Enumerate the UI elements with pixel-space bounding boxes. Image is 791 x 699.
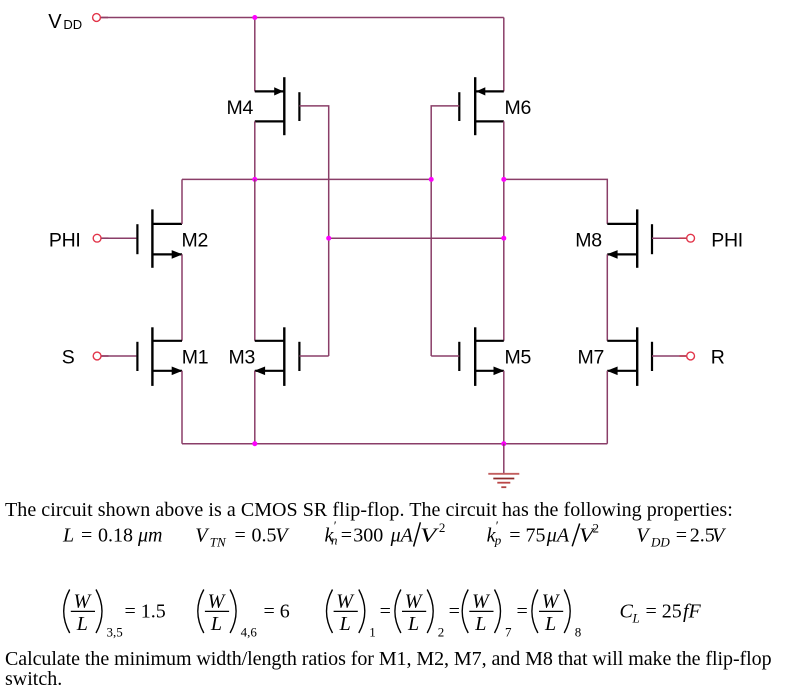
wire ground stem — [503, 444, 505, 474]
svg-text:W: W — [336, 590, 355, 612]
text value CL — [620, 601, 702, 626]
wire M1 source to ground bus — [181, 371, 183, 444]
junction cross link at node B — [501, 236, 506, 241]
svg-text:′: ′ — [495, 518, 498, 533]
wire M8 source to M7 drain — [606, 254, 608, 340]
svg-text:=: = — [235, 525, 246, 547]
svg-text:L: L — [407, 613, 419, 635]
terminal PHI right — [680, 234, 695, 242]
terminal PHI left — [93, 234, 108, 242]
svg-text:W: W — [405, 590, 424, 612]
wire node A down to M3 drain — [254, 179, 256, 340]
svg-text:M1: M1 — [182, 347, 209, 369]
svg-text:L: L — [339, 613, 351, 635]
wire node B cross link — [329, 237, 504, 239]
svg-text:0.18: 0.18 — [98, 525, 133, 547]
svg-text:1: 1 — [369, 624, 376, 639]
svg-text:The circuit shown above is a C: The circuit shown above is a CMOS SR fli… — [5, 499, 733, 521]
svg-text:M6: M6 — [505, 97, 532, 119]
transistor M7 — [607, 327, 652, 386]
svg-text:= 6: = 6 — [264, 601, 290, 623]
svg-text:=: = — [517, 601, 528, 623]
wire M7 source to ground bus — [606, 371, 608, 444]
svg-text:= 25: = 25 — [646, 601, 682, 623]
svg-text:L: L — [632, 611, 640, 626]
svg-text:3,5: 3,5 — [107, 624, 123, 639]
junction cross link at M4 M3 gates — [326, 236, 331, 241]
svg-text:S: S — [62, 347, 75, 369]
svg-text:=: = — [380, 601, 391, 623]
svg-text:W: W — [208, 590, 227, 612]
svg-text:switch.: switch. — [5, 668, 62, 690]
svg-text:M2: M2 — [182, 229, 209, 251]
wire node A bus — [182, 178, 431, 180]
svg-text:0.5: 0.5 — [252, 525, 277, 547]
text ratio W/L 7 — [462, 590, 528, 640]
svg-text:PHI: PHI — [711, 229, 743, 251]
terminal VDD — [93, 14, 108, 22]
wire M3 gate stub — [299, 355, 328, 357]
svg-text:=: = — [341, 525, 352, 547]
text ratio W/L 2 — [395, 590, 460, 640]
svg-text:L: L — [76, 613, 88, 635]
svg-text:μA: μA — [546, 525, 570, 547]
svg-text:=: = — [509, 525, 520, 547]
svg-text:n: n — [331, 533, 338, 548]
svg-text:W: W — [74, 590, 93, 612]
junction node A at M6 gate — [429, 177, 434, 182]
svg-text:= 1.5: = 1.5 — [125, 601, 166, 623]
transistor M4 — [255, 77, 300, 135]
svg-text:PHI: PHI — [49, 229, 81, 251]
svg-text:DD: DD — [650, 535, 670, 550]
junction node B at M6 drain — [501, 177, 506, 182]
wire M3 source to ground bus — [254, 371, 256, 444]
text ratio W/L 4,6 — [198, 590, 290, 640]
svg-text:L: L — [474, 613, 486, 635]
wire M4 drain down — [254, 121, 256, 179]
text ratio W/L 3,5 — [64, 590, 166, 640]
junction ground bus at M5 source — [501, 441, 506, 446]
svg-text:M8: M8 — [575, 229, 602, 251]
svg-text:L: L — [62, 525, 74, 547]
wire VDD rail — [101, 17, 504, 19]
svg-text:Calculate the minimum width/le: Calculate the minimum width/length ratio… — [5, 648, 772, 670]
svg-text:L: L — [544, 613, 556, 635]
wire M2 source to M1 drain — [181, 254, 183, 340]
junction ground bus at M3 source — [252, 441, 257, 446]
terminal S — [93, 352, 108, 360]
svg-text:=: = — [676, 525, 687, 547]
label VDD — [48, 11, 82, 33]
svg-text:2: 2 — [439, 520, 446, 535]
wire ground bus — [182, 443, 607, 445]
svg-text:W: W — [542, 590, 561, 612]
wire S to M1 gate — [101, 355, 136, 357]
wire M8 gate to PHI right — [652, 237, 686, 239]
svg-text:W: W — [472, 590, 491, 612]
transistor M5 — [459, 327, 504, 386]
wire M5 gate stub — [431, 355, 459, 357]
svg-text:7: 7 — [505, 624, 512, 639]
wire node B bus to M8 drain — [504, 179, 608, 224]
svg-text:=: = — [449, 601, 460, 623]
svg-text:L: L — [210, 613, 222, 635]
svg-text:=: = — [81, 525, 92, 547]
svg-text:2: 2 — [593, 521, 600, 536]
svg-text:p: p — [494, 533, 502, 548]
transistor M3 — [254, 327, 299, 386]
junction VDD rail — [252, 15, 257, 20]
text ratio W/L 8 — [532, 590, 581, 640]
wire VDD to M4 source — [254, 18, 256, 92]
svg-text:2: 2 — [438, 624, 445, 639]
svg-text:R: R — [711, 347, 725, 369]
terminal R — [680, 352, 695, 360]
svg-text:4,6: 4,6 — [241, 624, 258, 639]
wire M4 gate to node B — [299, 106, 328, 356]
transistor M2 — [137, 209, 182, 267]
text properties equations — [62, 518, 727, 550]
svg-text:V: V — [48, 11, 62, 33]
svg-text:′: ′ — [333, 518, 336, 533]
svg-text:fF: fF — [683, 601, 702, 623]
wire M6 gate to node A — [431, 106, 459, 356]
svg-text:8: 8 — [575, 624, 582, 639]
svg-text:DD: DD — [63, 17, 82, 32]
svg-text:C: C — [620, 601, 634, 623]
junction node A at M4 drain — [252, 177, 257, 182]
svg-text:TN: TN — [210, 535, 227, 550]
svg-text:μA: μA — [390, 525, 414, 547]
text ratio W/L 1 — [327, 590, 391, 640]
svg-text:300: 300 — [353, 525, 383, 547]
svg-text:M7: M7 — [578, 347, 605, 369]
wire M2 drain to node A — [181, 179, 183, 224]
svg-text:M4: M4 — [227, 97, 254, 119]
svg-text:μm: μm — [137, 525, 162, 547]
wire VDD to M6 source — [503, 18, 505, 92]
wire M5 source to ground bus — [503, 371, 505, 444]
ground — [488, 474, 519, 487]
wire M6 drain down to M5 drain — [503, 121, 505, 340]
svg-text:M3: M3 — [229, 347, 256, 369]
svg-text:M5: M5 — [505, 347, 532, 369]
transistor M6 — [459, 77, 504, 135]
wire PHI to M2 gate — [101, 237, 136, 239]
wire M7 gate to R — [652, 355, 686, 357]
svg-text:75: 75 — [526, 525, 546, 547]
transistor M8 — [607, 209, 652, 267]
transistor M1 — [137, 327, 182, 386]
